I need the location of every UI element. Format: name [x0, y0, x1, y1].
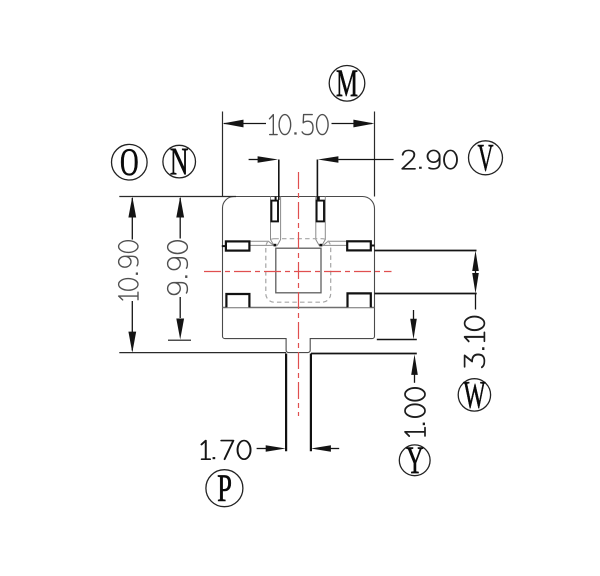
dim text 10.50	[269, 115, 328, 135]
dim 9.90 bottom tick	[168, 339, 191, 341]
pin lower-right	[348, 293, 371, 307]
mounting tab left edge	[285, 354, 287, 452]
pin lower-left	[226, 294, 249, 307]
dim 1.00 top tick	[377, 339, 417, 341]
dim 3.10 line and arrows	[475, 268, 477, 276]
pin upper-left	[226, 241, 250, 250]
left channel tip	[274, 244, 277, 247]
flange top line	[223, 307, 375, 309]
dim text 1.00	[405, 388, 425, 436]
dashed winding window	[266, 239, 331, 303]
mounting tab right edge	[310, 354, 312, 452]
dim 1.00 arrows	[413, 310, 415, 321]
dim 2.90 extension lines	[278, 160, 280, 201]
dim 1.00 bottom extension line	[311, 353, 417, 355]
upper shelf lines left	[249, 241, 274, 246]
right channel tip	[319, 244, 322, 247]
dim text 9.90	[168, 241, 188, 295]
balloon M	[329, 66, 365, 102]
dim text 1.70	[201, 441, 250, 460]
dim 1.70 arrows	[257, 448, 267, 450]
top slot pin right	[317, 201, 324, 222]
pin upper-right	[347, 241, 371, 250]
left wire channel	[271, 197, 281, 246]
dim 9.90 line and arrows	[179, 198, 181, 239]
dim 10.50 line and arrows	[224, 123, 266, 125]
red horizontal centerline	[204, 271, 392, 273]
balloon W	[458, 379, 490, 411]
balloon N	[163, 145, 196, 178]
dim 10.90 bottom extension line	[119, 352, 286, 354]
dim 3.10 extension lines	[374, 250, 476, 252]
dim 10.90 top extension line	[119, 196, 236, 198]
dim 2.90 arrows	[249, 159, 260, 161]
balloon Y	[399, 445, 430, 476]
dim text 2.90	[402, 150, 457, 168]
balloon V	[469, 141, 503, 175]
top slot pin left	[271, 201, 278, 222]
dim 10.90 line and arrows	[131, 198, 133, 240]
balloon O	[112, 144, 148, 180]
balloon P	[206, 470, 243, 507]
red vertical centerline	[298, 172, 300, 416]
dim text 10.90	[119, 241, 138, 300]
bobbin body outline	[223, 197, 375, 353]
right wire channel	[316, 197, 326, 246]
dim text 3.10	[465, 317, 485, 368]
dim 10.50 extension lines	[222, 112, 224, 197]
core center leg square	[276, 248, 321, 293]
upper shelf lines right	[322, 241, 347, 246]
